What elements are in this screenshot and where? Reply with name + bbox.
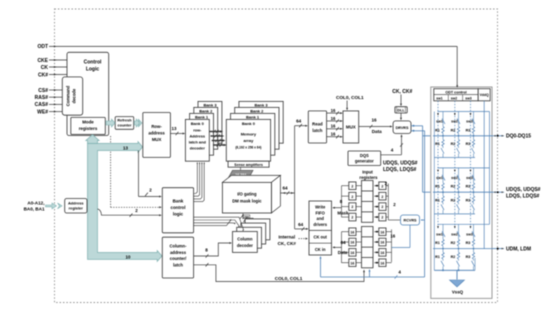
svg-text:DM mask logic: DM mask logic [232, 199, 262, 204]
svg-text:generator: generator [355, 159, 374, 164]
VddQ supply box [478, 89, 490, 101]
svg-text:sw3: sw3 [465, 97, 472, 101]
svg-text:Refresh: Refresh [117, 119, 132, 123]
svg-text:Address: Address [68, 200, 84, 205]
svg-text:2: 2 [381, 195, 383, 199]
svg-text:control: control [171, 205, 186, 210]
CK input pin [41, 65, 67, 71]
wire: 16,384 slab to I/O gating [238, 178, 240, 181]
svg-text:2: 2 [351, 205, 353, 209]
wires: bank control logic to column decoder stack [194, 217, 245, 231]
svg-text:R1: R1 [435, 142, 440, 146]
svg-text:Memory: Memory [241, 132, 257, 137]
svg-text:16: 16 [380, 261, 384, 265]
ODT input pin [37, 44, 457, 50]
command decode block [62, 77, 82, 115]
svg-text:CAS#: CAS# [35, 102, 49, 108]
svg-text:UDQS, UDQS#: UDQS, UDQS# [383, 161, 418, 167]
svg-text:CK, CK#: CK, CK# [278, 241, 297, 246]
svg-text:Control: Control [84, 60, 102, 66]
svg-text:array: array [244, 138, 255, 143]
svg-text:VssQ: VssQ [452, 290, 464, 295]
svg-text:CK: CK [41, 65, 49, 71]
svg-text:DLL: DLL [397, 109, 405, 113]
svg-text:sw3: sw3 [466, 176, 473, 180]
internal CK, CK# control into write FIFO [278, 234, 308, 246]
VssQ ground connection [434, 258, 475, 295]
svg-text:Row-: Row- [151, 124, 162, 129]
svg-text:2: 2 [381, 216, 383, 220]
svg-text:RAS#: RAS# [35, 95, 49, 101]
bank control logic block [162, 188, 193, 233]
svg-text:sw2: sw2 [451, 232, 458, 236]
svg-text:8: 8 [205, 248, 208, 253]
svg-text:2: 2 [381, 184, 383, 188]
svg-text:R1: R1 [435, 128, 440, 132]
svg-text:MUX: MUX [152, 137, 162, 142]
wires: input registers to write FIFO (64 Data) [332, 232, 349, 263]
svg-text:R2: R2 [451, 241, 456, 245]
LDQS/UDQS strobe pins [492, 187, 541, 200]
DM group termination network [433, 224, 492, 270]
CK, CK# clock input to DLL [392, 89, 412, 106]
svg-text:CK out: CK out [313, 235, 327, 240]
svg-text:64: 64 [282, 186, 288, 191]
data MUX block [343, 111, 359, 143]
CAS# input pin [35, 102, 63, 108]
svg-text:4: 4 [391, 148, 394, 153]
svg-text:CK in: CK in [315, 247, 326, 252]
svg-text:64: 64 [298, 222, 304, 227]
wire: address bus tap to bank control logic (2) [98, 208, 162, 217]
svg-text:Bank 0: Bank 0 [242, 121, 256, 126]
svg-text:sw2: sw2 [451, 97, 458, 101]
svg-text:R2: R2 [451, 185, 456, 189]
svg-text:16: 16 [350, 241, 354, 245]
svg-text:drivers: drivers [313, 222, 327, 227]
DQS group termination network [433, 168, 492, 214]
svg-text:16: 16 [380, 241, 384, 245]
svg-text:Data: Data [372, 129, 382, 134]
svg-text:row-: row- [193, 127, 202, 132]
svg-text:Mode: Mode [82, 120, 94, 125]
wires: latch stack to memory array stack [209, 130, 226, 147]
svg-text:Column-: Column- [170, 244, 188, 249]
svg-text:CK, CK#: CK, CK# [392, 89, 412, 95]
teal bus arrow: refresh counter to row-address MUX [134, 119, 142, 127]
wire: row-address MUX to bank row latches (13) [170, 126, 185, 135]
svg-text:8: 8 [340, 199, 343, 204]
VddQ feed line [434, 101, 489, 270]
svg-text:2: 2 [351, 184, 353, 188]
DQ pad / ODT block outline [431, 87, 492, 298]
svg-text:LDQS, LDQS#: LDQS, LDQS# [383, 167, 417, 173]
DQ0-DQ15 data pins [492, 134, 531, 140]
svg-text:counter: counter [118, 124, 132, 128]
svg-text:Bank 3: Bank 3 [203, 102, 217, 107]
svg-text:16: 16 [380, 251, 384, 255]
svg-text:4: 4 [398, 270, 401, 275]
row-address MUX block [143, 113, 171, 158]
wire: COL0, COL1 from column-address counter to input registers [194, 263, 365, 281]
svg-text:FIFO: FIFO [316, 210, 326, 215]
UDM, LDM mask pins [492, 247, 531, 253]
WE# input pin [37, 109, 63, 115]
driver output lines to DQ pads (teal) [411, 125, 443, 192]
output drivers block (DRVRS) [393, 121, 411, 134]
16,384 bus slab [229, 170, 254, 177]
svg-text:sw1: sw1 [436, 97, 443, 101]
svg-text:COL0, COL1: COL0, COL1 [275, 276, 303, 281]
svg-text:ODT: ODT [37, 44, 48, 50]
write FIFO and drivers block [309, 201, 332, 255]
svg-text:13: 13 [172, 126, 177, 131]
DLL block [395, 107, 407, 113]
svg-text:Bank 3: Bank 3 [254, 102, 268, 107]
svg-text:R1: R1 [435, 241, 440, 245]
svg-text:R1: R1 [435, 185, 440, 189]
svg-text:sw1: sw1 [436, 120, 443, 124]
wires: bank control logic to row latch stack [194, 162, 205, 202]
wire: DQS generator to drivers (4) [381, 134, 403, 155]
svg-text:logic: logic [173, 212, 184, 217]
address register block [65, 199, 87, 214]
svg-text:register: register [69, 206, 84, 211]
svg-text:16: 16 [331, 124, 336, 129]
svg-text:COL0, COL1: COL0, COL1 [336, 95, 364, 100]
svg-text:16: 16 [350, 251, 354, 255]
read latch block [308, 111, 326, 143]
svg-text:R3: R3 [466, 128, 471, 132]
svg-text:Write: Write [315, 205, 326, 210]
svg-text:2: 2 [381, 205, 383, 209]
svg-text:64: 64 [340, 240, 346, 245]
DQ group termination network [433, 112, 492, 158]
svg-text:Internal: Internal [279, 234, 296, 239]
svg-text:DQS: DQS [360, 153, 369, 158]
svg-text:R3: R3 [466, 142, 471, 146]
input receivers block (RCVRS) [401, 215, 420, 225]
svg-text:DRVRS: DRVRS [396, 126, 409, 130]
svg-text:R2: R2 [451, 128, 456, 132]
RAS# input pin [35, 95, 63, 101]
CKE input pin [37, 58, 67, 64]
64-bit internal data bus (I/O gating to read latch / write FIFO) [280, 118, 308, 230]
I/O gating / DM mask logic block (3D) [222, 175, 280, 213]
wire: MUX to output drivers (16 Data) [359, 118, 393, 135]
svg-text:decoder: decoder [237, 243, 253, 248]
DQS pin labels (UDQS, LDQS) [383, 161, 418, 174]
svg-text:Logic: Logic [86, 67, 100, 73]
svg-text:13: 13 [123, 145, 128, 150]
refresh counter block [115, 117, 134, 130]
svg-text:registers: registers [79, 126, 98, 131]
wire: row address tap to bank control logic (2) [139, 151, 162, 198]
svg-text:Bank 1: Bank 1 [195, 114, 209, 119]
column decoder stack [233, 219, 270, 253]
svg-text:16: 16 [350, 230, 354, 234]
wire: DQ pad line to receivers [421, 219, 425, 221]
svg-text:R2: R2 [451, 142, 456, 146]
svg-text:Bank 0: Bank 0 [191, 121, 205, 126]
svg-text:ODT control: ODT control [445, 90, 466, 94]
bank row-address latch and decoder stack (Bank 3/2/1/0) [185, 101, 222, 161]
svg-text:RCVRS: RCVRS [404, 219, 417, 223]
svg-text:DQ0-DQ15: DQ0-DQ15 [506, 134, 531, 140]
wires: input registers to write FIFO (8 Mask) [332, 186, 349, 217]
svg-text:(8,192 x 256 x 64): (8,192 x 256 x 64) [235, 145, 261, 149]
svg-text:BA0, BA1: BA0, BA1 [24, 207, 45, 212]
svg-text:A0-A12,: A0-A12, [27, 200, 44, 205]
svg-text:MUX: MUX [346, 125, 356, 130]
dotted control line from control logic to bank control logic [111, 136, 162, 208]
svg-text:latch: latch [173, 262, 183, 267]
svg-text:16: 16 [371, 118, 377, 123]
svg-text:16: 16 [350, 261, 354, 265]
address bus (teal) trunk and branches [86, 135, 162, 262]
svg-text:I/O gating: I/O gating [237, 192, 257, 197]
svg-text:R3: R3 [466, 198, 471, 202]
svg-text:R2: R2 [451, 198, 456, 202]
svg-text:sw2: sw2 [451, 176, 458, 180]
svg-text:WE#: WE# [37, 109, 48, 115]
svg-text:address: address [170, 250, 187, 255]
CS# input pin [38, 88, 63, 94]
svg-text:decoder: decoder [190, 146, 206, 151]
wires: receivers to input registers (2, 16) [385, 181, 410, 263]
wire: ODT signal into ODT control [456, 46, 458, 87]
ODT control block [434, 89, 478, 101]
wires: read latch to MUX (4 x 16) [327, 108, 343, 138]
svg-text:2: 2 [351, 216, 353, 220]
svg-text:and: and [317, 216, 325, 221]
svg-text:R3: R3 [466, 241, 471, 245]
svg-text:CK#: CK# [38, 72, 48, 78]
svg-text:Address: Address [190, 133, 206, 138]
svg-text:16: 16 [380, 230, 384, 234]
sense amplifiers [228, 161, 269, 167]
chip boundary (dashed border) [55, 9, 498, 303]
svg-text:2: 2 [351, 195, 353, 199]
svg-text:Bank 1: Bank 1 [246, 114, 260, 119]
svg-text:sw2: sw2 [451, 120, 458, 124]
column-address counter/latch block [162, 237, 193, 278]
svg-text:10: 10 [126, 254, 131, 259]
svg-text:R2: R2 [451, 255, 456, 259]
A0-A12, BA0, BA1 input pins [24, 200, 62, 211]
input registers stack [359, 169, 378, 267]
memory array stack (Bank 3/2/1/0) [226, 101, 283, 161]
svg-text:UDQS, UDQS#: UDQS, UDQS# [506, 187, 541, 193]
svg-text:16: 16 [331, 132, 336, 137]
svg-text:R3: R3 [466, 255, 471, 259]
mode registers block [71, 117, 106, 134]
svg-text:LDQS, LDQS#: LDQS, LDQS# [506, 194, 540, 200]
COL0, COL1 select into MUX [336, 95, 364, 110]
svg-text:Bank 2: Bank 2 [250, 108, 264, 113]
svg-text:16: 16 [331, 116, 336, 121]
control logic block [67, 52, 109, 135]
svg-text:latch: latch [312, 128, 322, 133]
svg-text:sw1: sw1 [436, 232, 443, 236]
svg-text:sw3: sw3 [466, 120, 473, 124]
input register left cells (2/16 to write FIFO) [349, 182, 362, 267]
svg-text:64: 64 [296, 118, 302, 123]
svg-text:Sense amplifiers: Sense amplifiers [234, 163, 263, 167]
DQS strobe line to CK in and input registers (blue) [320, 131, 425, 279]
ODT switch control lines (dashed) [437, 101, 471, 229]
svg-text:Command: Command [66, 85, 71, 106]
svg-text:Read: Read [312, 121, 323, 126]
svg-text:counter/: counter/ [170, 256, 187, 261]
svg-text:CKE: CKE [37, 58, 48, 64]
svg-text:CS#: CS# [38, 88, 48, 94]
wire: column-address counter to column decoder (8) [194, 242, 232, 258]
svg-text:16: 16 [390, 233, 395, 238]
svg-text:R1: R1 [435, 198, 440, 202]
svg-text:VddQ: VddQ [480, 93, 489, 97]
svg-text:R1: R1 [435, 255, 440, 259]
svg-text:Data: Data [338, 250, 348, 255]
svg-text:sw3: sw3 [466, 232, 473, 236]
input register right cells (2/16 from receivers) [374, 182, 386, 267]
svg-text:Bank: Bank [173, 199, 184, 204]
svg-text:R3: R3 [466, 185, 471, 189]
svg-text:UDM, LDM: UDM, LDM [506, 247, 531, 253]
DQS generator block [348, 151, 381, 166]
wire: DLL to drivers [400, 113, 402, 120]
svg-text:decode: decode [72, 88, 77, 103]
svg-text:Input: Input [362, 169, 373, 174]
svg-text:address: address [148, 131, 165, 136]
svg-text:Column: Column [237, 236, 253, 241]
svg-text:16: 16 [331, 108, 336, 113]
svg-text:Bank 2: Bank 2 [199, 108, 213, 113]
svg-text:registers: registers [359, 175, 378, 180]
teal bus arrow: mode registers to refresh counter [106, 119, 115, 127]
wire: sense amplifiers to 16,384 slab [240, 167, 242, 170]
column select buses (256) between column decoders and I/O gating [240, 213, 260, 228]
svg-text:Mask: Mask [337, 211, 349, 216]
CK# input pin [38, 72, 67, 78]
svg-text:sw1: sw1 [436, 176, 443, 180]
svg-text:latch and: latch and [189, 140, 207, 145]
